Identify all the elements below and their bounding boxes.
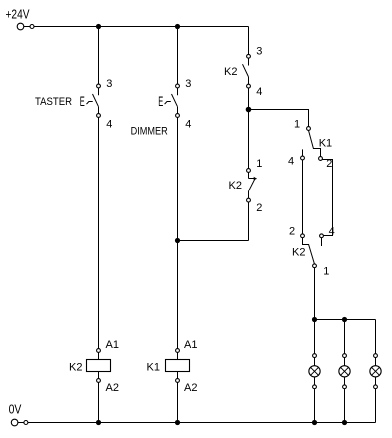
wire bottom 0V rail	[28, 422, 376, 424]
svg-text:A1: A1	[106, 339, 119, 351]
svg-text:E: E	[158, 94, 163, 109]
net label 0V	[9, 402, 22, 417]
pin label 1 (K2 co)	[323, 266, 329, 278]
wire K1 pin4 to K2 pin2	[302, 160, 304, 234]
label K1 (coil)	[147, 362, 160, 374]
wire lamp bus	[315, 319, 376, 321]
svg-text:K2: K2	[224, 66, 237, 78]
node branch3 / K1 feed	[246, 107, 252, 113]
pushbutton S2 DIMMER (NO contact)	[172, 84, 180, 117]
terminal +24V	[17, 23, 34, 30]
svg-text:K2: K2	[69, 362, 82, 374]
wire branch2 lower	[177, 382, 179, 422]
svg-text:1: 1	[323, 266, 329, 278]
svg-text:4: 4	[329, 226, 335, 238]
node bottom rail / branch 1	[96, 420, 101, 425]
wire branch1 lower	[98, 382, 100, 422]
svg-text:2: 2	[289, 226, 295, 238]
svg-text:0V: 0V	[9, 402, 22, 417]
pin label 2 (K2 co)	[289, 226, 295, 238]
wire branch3 lower	[248, 110, 250, 169]
svg-text:A2: A2	[106, 382, 119, 394]
svg-text:TASTER: TASTER	[35, 96, 72, 108]
node branch2 / branch3 return	[175, 238, 180, 243]
svg-text:K2: K2	[292, 247, 305, 259]
pin label A2 (K2 coil)	[106, 382, 119, 394]
node top rail / branch 2	[175, 24, 180, 29]
pin label 4 (S2)	[185, 118, 191, 130]
changeover contact K1	[301, 127, 323, 161]
svg-text:4: 4	[256, 86, 262, 98]
label K1 (changeover)	[319, 137, 332, 149]
wire K2 common down	[314, 268, 316, 320]
label DIMMER	[131, 125, 168, 137]
pin label 2 (K2 NC)	[256, 202, 262, 214]
contact K2 NO (3/4)	[243, 54, 251, 88]
pin label 1 (K1)	[294, 118, 300, 130]
wire branch1 upper	[98, 27, 100, 85]
relay coil K2	[87, 349, 111, 383]
svg-text:3: 3	[256, 46, 262, 58]
pin label 4 (K2 NO)	[256, 86, 262, 98]
pin label 4 (K2 co)	[329, 226, 335, 238]
svg-text:K1: K1	[319, 137, 332, 149]
svg-text:A1: A1	[184, 339, 197, 351]
pin label 4 (K1)	[288, 156, 294, 168]
svg-text:K2: K2	[229, 180, 242, 192]
lamp H2	[339, 320, 350, 423]
svg-text:E: E	[80, 94, 85, 109]
changeover contact K2	[301, 234, 324, 268]
wire node to K1 common	[249, 110, 309, 127]
wire branch2 upper	[177, 27, 179, 85]
svg-text:3: 3	[106, 78, 112, 90]
wire K1 pin2 to K2 pin4	[322, 160, 332, 236]
pin label A1 (K1 coil)	[184, 339, 197, 351]
pin label 4 (S1)	[106, 118, 112, 130]
svg-text:K1: K1	[147, 362, 160, 374]
actuator E (S2)	[158, 94, 171, 109]
wire branch3 bottom	[248, 202, 250, 241]
pin label A2 (K1 coil)	[184, 382, 197, 394]
svg-text:1: 1	[256, 158, 262, 170]
pin label 1 (K2 NC)	[256, 158, 262, 170]
pin label 3 (S1)	[106, 78, 112, 90]
pin label 3 (K2 NO)	[256, 46, 262, 58]
svg-text:2: 2	[256, 202, 262, 214]
svg-text:A2: A2	[184, 382, 197, 394]
node lamp bus / lamp2	[342, 317, 347, 322]
wire branch1 middle	[98, 117, 100, 348]
svg-text:3: 3	[185, 78, 191, 90]
wire branch3 to node	[248, 88, 250, 110]
label TASTER	[35, 96, 72, 108]
node bottom rail / lamp2	[342, 420, 347, 425]
terminal 0V	[11, 419, 28, 426]
wire branch3 return link	[178, 240, 249, 242]
lamp H1	[309, 320, 320, 423]
contact K2 NC (1/2)	[247, 169, 258, 202]
actuator E (S1)	[80, 94, 93, 109]
label K2 (coil)	[69, 362, 82, 374]
svg-text:4: 4	[288, 156, 294, 168]
lamp H3	[370, 320, 381, 423]
svg-text:4: 4	[185, 118, 191, 130]
node lamp bus / lamp1	[312, 317, 317, 322]
pin label A1 (K2 coil)	[106, 339, 119, 351]
pin label 3 (S2)	[185, 78, 191, 90]
svg-text:4: 4	[106, 118, 112, 130]
pushbutton S1 TASTER (NO contact)	[93, 84, 101, 117]
wire branch2 middle	[177, 117, 179, 348]
label K2 (changeover)	[292, 247, 305, 259]
node bottom rail / lamp1	[312, 420, 317, 425]
relay coil K1	[166, 349, 190, 383]
pin label 2 (K1)	[326, 158, 332, 170]
wire branch3 upper	[248, 27, 250, 55]
svg-text:+24V: +24V	[6, 7, 30, 22]
label K2 (NO contact)	[224, 66, 237, 78]
svg-text:1: 1	[294, 118, 300, 130]
wire top +24V rail	[34, 26, 249, 28]
svg-text:DIMMER: DIMMER	[131, 125, 168, 137]
node bottom rail / branch 2	[175, 420, 180, 425]
net label +24V	[6, 7, 30, 22]
node top rail / branch 1	[96, 24, 101, 29]
label K2 (NC contact)	[229, 180, 242, 192]
